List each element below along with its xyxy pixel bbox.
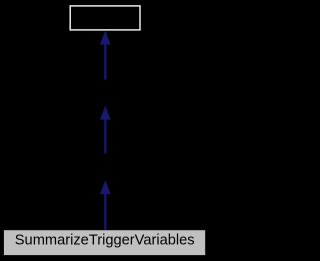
inheritance arrow 3 (to bottom node) [100, 180, 111, 230]
svg-text:SummarizeTriggerVariables: SummarizeTriggerVariables [15, 233, 195, 249]
node: base class (empty box, light border) [70, 6, 140, 30]
inheritance arrow 1 (to top box) [100, 31, 111, 80]
node: SummarizeTriggerVariables (gray filled) [4, 230, 205, 255]
inheritance arrow 2 (middle) [100, 106, 111, 154]
